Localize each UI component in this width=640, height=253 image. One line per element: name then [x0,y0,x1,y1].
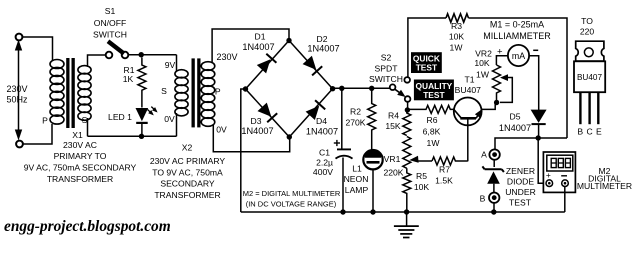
wire: A rail [495,138,567,150]
svg-text:R2: R2 [350,107,361,117]
resistor R7 1.5K [432,157,468,165]
wire: bridge edge top-left [246,41,290,90]
svg-text:X2: X2 [182,143,193,153]
svg-text:T1: T1 [464,75,474,85]
label R2 270K [345,107,365,128]
node: T1 emitter junction [494,100,499,105]
svg-text:engg-project.blogspot.com: engg-project.blogspot.com [4,218,171,235]
wire: bridge edge bottom-right [289,89,332,137]
svg-text:A: A [481,150,487,160]
resistor R5 10K [403,168,411,212]
node: LED bottom junction [139,134,144,139]
label 0V (X2 primary) [216,125,227,135]
label X2 description [150,156,226,200]
svg-text:B: B [480,194,486,204]
switch S1 pole contact [106,52,113,59]
svg-text:VR2: VR2 [475,49,492,59]
node: B junction [491,209,496,214]
label BU407 [455,85,481,95]
svg-text:MULTİMETER: MULTİMETER [577,181,632,191]
svg-text:230V AC PRIMARY: 230V AC PRIMARY [150,156,226,166]
label M1 plus [497,47,503,58]
svg-text:R5: R5 [416,171,427,181]
label S1 ON/OFF SWITCH [93,6,127,40]
label R3 10K 1W [449,21,465,53]
wire: bridge right node to S2 pole [333,87,390,89]
wire: junction down to X2 secondary top [176,55,178,71]
wire: bottom rail [241,211,565,213]
label P (X1 primary) [42,116,48,126]
svg-text:TRANSFORMER: TRANSFORMER [154,190,220,200]
capacitor C1 plus sign [334,140,340,146]
wire: bridge left node to bottom rail [241,89,246,212]
potentiometer VR1 220K [403,137,411,169]
label M2 plus terminal [546,170,551,180]
resistor R4 15K [403,110,411,136]
svg-text:1N4007: 1N4007 [242,42,274,52]
label 230V (X2 primary) [216,52,237,62]
wire: X2 primary bottom to bridge bottom node [213,124,289,152]
svg-text:S2: S2 [381,53,392,63]
wire: M2 plus lead [538,138,546,183]
switch S1 throw contact [122,52,129,59]
label R5 10K [414,171,430,192]
transformer X1 primary winding P [50,60,64,125]
terminal A [489,149,499,159]
label R7 1.5K [435,165,453,186]
svg-text:PRIMARY TO: PRIMARY TO [54,151,107,161]
node: bridge top [286,38,291,43]
svg-text:TEST: TEST [416,63,438,73]
svg-text:230V: 230V [6,84,27,94]
label 9V [165,60,176,70]
label VR2 10K 1W [474,49,492,80]
label M1 minus [533,49,538,51]
wire: M1 plus to VR2 top [496,56,508,65]
wire: L1 bottom lead [372,169,374,212]
node: L1 bottom junction [370,209,375,214]
svg-text:10K: 10K [449,32,465,42]
wire: X1 secondary bottom to 0V rail [87,118,89,136]
svg-text:R6: R6 [427,115,438,125]
resistor R3 10K 1W [446,14,469,22]
node: junction R1 top [139,52,144,57]
resistor R1 1K [138,58,146,108]
label M2 minus terminal [561,175,567,177]
svg-text:R3: R3 [451,21,462,31]
svg-text:MILLIAMMETER: MILLIAMMETER [483,31,551,41]
diode D3 1N4007 [258,103,278,123]
transformer X2 secondary winding [175,70,188,116]
diode D1 1N4007 [257,54,277,74]
label LED 1 [108,112,132,122]
zener diode under test [482,166,504,192]
node: R2 tap [369,86,374,91]
label QUALITY TEST [414,80,454,101]
svg-text:1.5K: 1.5K [435,176,453,186]
svg-text:270K: 270K [345,118,365,128]
svg-text:1W: 1W [476,70,490,80]
svg-text:BU407: BU407 [455,85,481,95]
capacitor C1 2.2u 400V [336,149,353,158]
svg-text:S1: S1 [105,6,116,16]
TO-220 package body [574,61,605,92]
label D1 [255,32,266,42]
label S (X1 secondary) [82,115,88,125]
svg-text:R4: R4 [388,111,399,121]
svg-text:NEON: NEON [344,174,369,184]
wire: C1 top lead [341,88,343,148]
svg-text:R7: R7 [439,165,450,175]
svg-text:220K: 220K [383,168,403,178]
transformer X1 secondary winding S [78,66,91,121]
ground [394,212,419,238]
svg-text:C1: C1 [319,148,330,158]
svg-text:P: P [215,87,221,97]
label L1 NEON LAMP [344,164,369,196]
svg-text:D4: D4 [316,116,327,126]
wire: 0V bottom link (X1-S to X2-S) [88,135,177,137]
node: quality junction [405,107,410,112]
svg-text:L1: L1 [352,164,362,174]
wire: bridge edge top-right [289,41,333,89]
svg-text:C: C [586,127,592,137]
resistor R2 270K [368,88,376,150]
wire: quality throw to junction [407,102,409,109]
wire: S1 to 9V junction [128,54,176,56]
svg-text:400V: 400V [313,167,333,177]
svg-text:230V: 230V [216,52,237,62]
LED1 [136,108,149,134]
label B C E [577,127,602,137]
label C1 2.2u 400V [313,148,333,178]
label R4 15K [385,111,401,132]
transformer X1 core [66,58,75,128]
label B [480,194,486,204]
switch S1 blade [108,41,124,53]
label D3 [251,116,262,126]
svg-text:SECONDARY: SECONDARY [160,179,215,189]
wire: neutral terminal to X1 primary bottom [23,124,52,144]
svg-text:1N4007: 1N4007 [306,127,338,137]
transformer X2 primary winding [201,62,215,127]
switch S2 pole [390,84,396,90]
svg-text:VR1: VR1 [384,154,401,164]
label 230V 50Hz [6,84,28,105]
svg-text:9V AC, 750mA SECONDARY: 9V AC, 750mA SECONDARY [24,163,137,173]
svg-text:M1 = 0-25mA: M1 = 0-25mA [490,20,544,30]
node: bridge bottom [287,134,292,139]
VR1 wiper from R7 [409,156,432,163]
multimeter M2 terminals [546,180,568,187]
node: mains neutral terminal [16,141,23,148]
svg-text:2.2µ: 2.2µ [316,158,333,168]
label A [481,150,487,160]
TO-220 legs [580,92,598,124]
wire: bridge edge bottom-left [246,89,290,137]
wire: X1 secondary top to S1 [88,55,106,67]
svg-text:9V: 9V [165,60,176,70]
svg-text:50Hz: 50Hz [6,95,28,105]
node: ground junction [404,209,409,214]
label R1 1K [123,65,135,84]
svg-text:SWITCH: SWITCH [93,30,127,40]
svg-text:LED 1: LED 1 [108,112,132,122]
AC source 230V 50Hz double arrow [15,40,22,141]
neon lamp L1 [363,150,382,169]
svg-text:1N4007: 1N4007 [241,126,273,136]
label D4 1N4007 [306,127,338,137]
svg-text:B: B [577,127,583,137]
node: bridge right [330,86,335,91]
note M2 = DIGITAL MULTIMETER (IN DC VOLTAGE RANGE) [243,189,341,209]
node: bridge left [243,86,248,91]
svg-text:220: 220 [580,27,595,37]
svg-text:6,8K: 6,8K [423,127,441,137]
svg-text:(IN DC VOLTAGE RANGE): (IN DC VOLTAGE RANGE) [246,200,337,209]
label M1 = 0-25mA MILLIAMMETER [483,20,551,41]
label ZENER DIODE UNDER TEST [505,166,536,208]
svg-text:E: E [596,127,602,137]
diode D2 1N4007 [303,56,323,76]
svg-text:TEST: TEST [423,90,445,100]
diode D5 1N4007 [531,110,547,138]
svg-text:0V: 0V [164,114,175,124]
svg-text:1W: 1W [427,138,441,148]
wire: quick throw up to top rail [408,18,446,77]
svg-text:S: S [161,86,167,96]
svg-text:S: S [82,115,88,125]
resistor R6 6.8K 1W [410,105,454,113]
label 0V (X2 secondary) [164,114,175,124]
svg-text:1W: 1W [450,43,464,53]
label T1 [464,75,474,85]
svg-text:D1: D1 [255,32,266,42]
label S (X2 secondary) [161,86,167,96]
label X2 [182,143,193,153]
label D5 [510,112,521,122]
svg-text:ON/OFF: ON/OFF [94,18,126,28]
label D2 1N4007 [307,44,339,54]
label D4 [316,116,327,126]
LED1 light arrows [148,107,158,116]
wire: M2 minus to bottom rail [564,187,566,213]
svg-text:+: + [546,170,551,180]
svg-text:1N4007: 1N4007 [499,123,531,133]
milliammeter M1 [508,45,529,66]
watermark engg-project.blogspot.com [4,218,171,235]
wire: live terminal to X1 primary top [23,37,53,60]
potentiometer VR2 10K 1W [493,65,501,101]
wire: C1 bottom lead [342,158,344,213]
svg-text:10K: 10K [414,182,430,192]
diode D4 1N4007 [306,100,326,120]
label D2 [317,34,328,44]
multimeter M2 body [543,152,575,192]
label D3 1N4007 [241,126,273,136]
svg-text:230V AC: 230V AC [63,140,97,150]
transformer X2 core [192,58,201,127]
label S2 SPDT SWITCH [369,53,403,85]
svg-text:SWITCH: SWITCH [369,74,403,84]
switch S2 blade [395,89,406,97]
svg-text:ZENER: ZENER [506,166,535,176]
VR2 wiper [500,74,512,102]
wire: top rail R3 to right corner [469,18,568,138]
svg-text:10K: 10K [474,58,490,68]
svg-text:DIODE: DIODE [507,177,534,187]
label X1 description [24,140,137,184]
svg-text:M2 = DIGITAL MULTIMETER: M2 = DIGITAL MULTIMETER [243,189,341,198]
svg-text:LAMP: LAMP [345,185,369,195]
svg-text:D5: D5 [510,112,521,122]
svg-text:15K: 15K [385,121,401,131]
label M2 DIGITAL MULTIMETER [577,166,632,191]
wire: T1 emitter to junction [481,103,495,110]
node: C1 tap [339,86,344,91]
multimeter M2 display [547,155,573,171]
wire: B to bottom rail [493,203,495,212]
label TO 220 [580,16,595,37]
label R6 6.8K 1W [423,115,441,148]
label VR1 220K [383,154,403,178]
svg-text:D3: D3 [251,116,262,126]
label X1 [72,130,83,140]
svg-text:TO: TO [581,16,593,26]
node: C1 bottom junction [340,209,345,214]
svg-text:TEST: TEST [509,198,532,208]
terminal B [489,193,499,203]
svg-text:0V: 0V [216,125,227,135]
switch S2 throw quick [404,77,410,83]
svg-text:D2: D2 [317,34,328,44]
wire: M1 minus to D5 [529,56,539,110]
transistor T1 BU407 [454,98,482,162]
svg-text:1N4007: 1N4007 [307,44,339,54]
svg-text:SPDT: SPDT [375,64,399,74]
label QUICK TEST [411,52,442,73]
node: mains live terminal [16,34,23,41]
svg-text:TO 9V AC, 750mA: TO 9V AC, 750mA [152,167,223,177]
svg-text:X1: X1 [72,130,83,140]
wire: A to zener [493,160,495,167]
svg-text:mA: mA [512,51,525,61]
svg-text:TRANSFORMER: TRANSFORMER [47,174,113,184]
label D1 1N4007 [242,42,274,52]
node: D5/M2 junction [536,135,541,140]
TO-220 package tab [576,41,604,61]
label P (X2 primary) [215,87,221,97]
wire: X2 primary top to bridge top node [212,29,289,62]
svg-text:P: P [42,116,48,126]
svg-text:UNDER: UNDER [505,187,536,197]
wire: X2 secondary bottom lead [176,113,178,136]
label D5 1N4007 [499,123,531,133]
switch S2 throw quality [405,96,411,102]
svg-text:1K: 1K [123,74,134,84]
svg-text:BU407: BU407 [577,73,602,82]
